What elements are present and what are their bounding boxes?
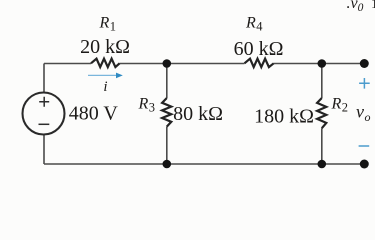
output plus sign (359, 78, 370, 89)
terminal node: output top (360, 59, 369, 68)
svg-text:60 kΩ: 60 kΩ (234, 38, 284, 60)
wire: top-right segment from R4 to output terminal (274, 63, 365, 65)
voltage source minus sign (39, 123, 50, 125)
svg-text:80 kΩ: 80 kΩ (173, 103, 223, 125)
wire: left branch lower (source bottom to bottom rail) (43, 135, 45, 165)
svg-text:.v0: .v0 (347, 0, 364, 14)
wire: left branch upper (source top to top rail) (43, 64, 45, 93)
wire: right branch upper (top rail to R2) (321, 64, 323, 99)
svg-text:180 kΩ: 180 kΩ (254, 106, 314, 128)
resistor R2 zigzag (317, 98, 326, 128)
svg-text:20 kΩ: 20 kΩ (80, 36, 130, 58)
wire: bottom rail (44, 163, 364, 165)
junction node: bottom middle (163, 160, 172, 169)
current arrow i (88, 73, 123, 79)
junction node: top right (318, 59, 327, 68)
terminal node: output bottom (360, 160, 369, 169)
resistor R3 zigzag (162, 98, 171, 127)
voltage source V1 circle (23, 93, 65, 135)
output minus sign (359, 145, 370, 147)
wire: right branch lower (R2 to bottom rail) (321, 128, 323, 164)
resistor R1 zigzag (91, 59, 120, 67)
svg-text:i: i (103, 79, 107, 95)
svg-text:1: 1 (371, 0, 375, 12)
wire: top-middle segment between R1 and R4 (120, 63, 245, 65)
voltage source plus sign (39, 97, 49, 107)
wire: middle branch upper (top rail to R3) (166, 64, 168, 99)
wire: middle branch lower (R3 to bottom rail) (166, 127, 168, 164)
resistor R4 zigzag (245, 59, 274, 67)
junction node: bottom right (318, 160, 327, 169)
svg-text:480 V: 480 V (69, 103, 119, 125)
junction node: top middle (163, 59, 172, 68)
wire: top-left segment from left branch to R1 (44, 63, 91, 65)
